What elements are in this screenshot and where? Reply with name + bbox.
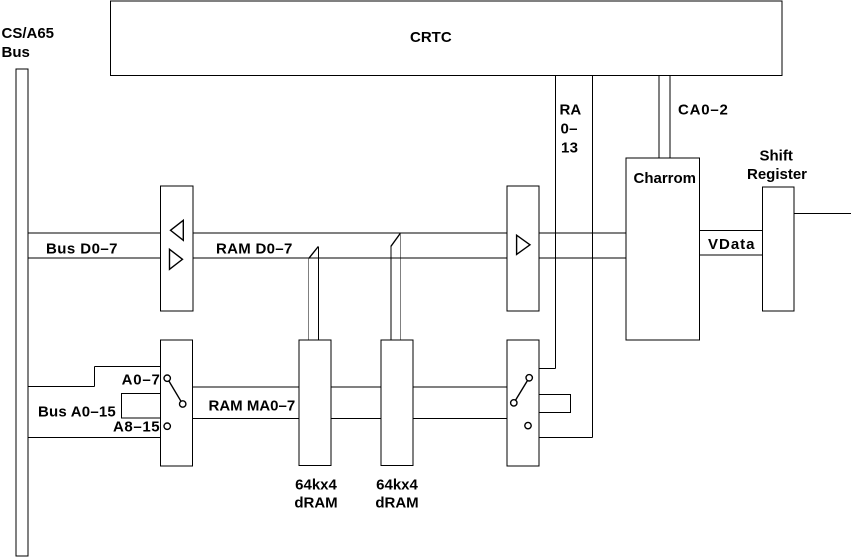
switch S1 contact A8-15 [164, 423, 170, 429]
block dRAM1 64kx4 [299, 340, 331, 466]
block address mux S1 [161, 340, 193, 466]
label 64kx4 dRAM 1 [294, 477, 337, 512]
switch S2 contact lower [525, 422, 531, 428]
svg-text:Charrom: Charrom [634, 170, 697, 187]
wire VData bus (Charrom to shift register) [699, 231, 762, 256]
wire bus D0-7 left segment (CS/A65 bus to buffer) [28, 233, 161, 258]
block data buffer U3 [507, 186, 539, 311]
svg-text:RAM D0–7: RAM D0–7 [216, 240, 293, 257]
switch S1 pole [180, 401, 186, 407]
wire RAM D0-7 right segment (right buffer to Charrom) [539, 233, 626, 258]
wire Bus A0-15 lower rail [28, 437, 161, 439]
svg-text:RA: RA [560, 101, 582, 118]
switch S2 wiper [516, 381, 528, 401]
wire dRAM1 data tap needle [309, 247, 319, 341]
svg-text:Bus A0–15: Bus A0–15 [38, 403, 116, 420]
svg-text:64kx4: 64kx4 [295, 477, 337, 494]
svg-text:13: 13 [561, 139, 578, 156]
wire stub notch right of switch S2 [539, 394, 570, 412]
svg-text:VData: VData [708, 236, 756, 253]
wire Bus A0-15 upper rail with A0-7 step [28, 367, 161, 387]
svg-text:0–: 0– [561, 121, 578, 138]
svg-text:Shift: Shift [760, 148, 793, 165]
svg-text:dRAM: dRAM [294, 494, 337, 511]
block dRAM2 64kx4 [381, 340, 413, 466]
svg-text:Bus: Bus [2, 44, 30, 61]
buffer triangle right-pointing in U3 [517, 235, 530, 254]
label CS/A65 Bus [2, 25, 55, 61]
wire video output (shift register right) [794, 212, 851, 214]
svg-text:A0–7: A0–7 [122, 372, 161, 389]
block data bus buffer U2 [161, 186, 194, 311]
svg-text:CRTC: CRTC [410, 29, 452, 46]
label Shift Register [747, 148, 807, 184]
wire RAM D0-7 middle segment (buffer to right buffer) [193, 233, 507, 258]
block address switch S2 [507, 340, 539, 466]
label RA 0-13 [560, 101, 582, 156]
wire RA0-13 line 2 (CRTC to right switch) [539, 75, 593, 438]
block shift register U5 [763, 187, 795, 311]
label 64kx4 dRAM 2 [375, 477, 418, 512]
svg-text:Register: Register [747, 166, 807, 183]
wire A0-7 / A8-15 divider notch [122, 394, 161, 419]
svg-text:CA0–2: CA0–2 [678, 101, 729, 118]
switch S2 contact RA [526, 375, 532, 381]
switch S1 wiper [169, 381, 181, 401]
switch S1 contact A0-7 [164, 375, 170, 381]
switch S2 pole [511, 400, 517, 406]
svg-text:Bus D0–7: Bus D0–7 [46, 240, 118, 257]
svg-text:CS/A65: CS/A65 [2, 25, 55, 42]
svg-text:A8–15: A8–15 [113, 419, 160, 436]
buffer triangle left-pointing in U2 [171, 220, 184, 240]
wire dRAM2 data tap needle [391, 234, 400, 341]
wire CA0-2 line 2 (CRTC to Charrom) [669, 75, 671, 158]
svg-text:dRAM: dRAM [375, 494, 418, 511]
block CRTC U1 [111, 1, 783, 76]
wire RA0-13 line 1 (CRTC to right switch) [539, 75, 556, 369]
svg-text:RAM MA0–7: RAM MA0–7 [209, 397, 296, 414]
buffer triangle right-pointing in U2 [170, 249, 183, 269]
svg-text:64kx4: 64kx4 [376, 477, 418, 494]
node CS/A65 bus bar [16, 69, 28, 556]
wire RAM MA0-7 bus (mux to right switch) [193, 387, 508, 419]
block Charrom U4 [626, 158, 700, 340]
wire CA0-2 line 1 (CRTC to Charrom) [658, 75, 660, 158]
